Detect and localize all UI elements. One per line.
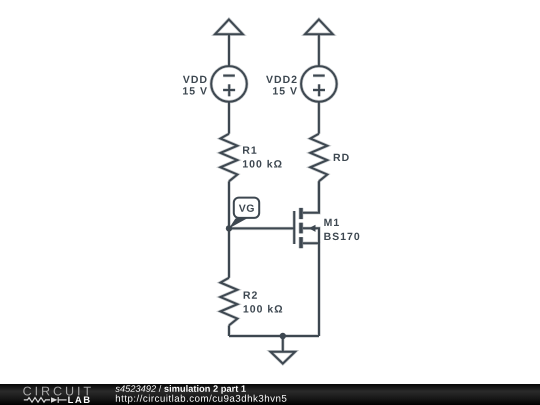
power flag VDD [215, 19, 243, 34]
transistor M1 body lead [303, 228, 319, 243]
node flag VG text [239, 204, 254, 211]
transistor M1 source lead [303, 243, 319, 336]
logo CIRCUIT wordmark [23, 387, 91, 396]
wire VDD flag to source [228, 34, 230, 66]
logo circuit glyph: wire-resistor-diode [24, 397, 67, 403]
logo LAB wordmark [68, 396, 89, 403]
ground [271, 336, 296, 364]
node flag VG pointer [229, 219, 247, 229]
transistor M1 channel dashes [299, 208, 303, 248]
wire gate [229, 227, 294, 229]
node VG junction dot [226, 225, 232, 231]
wire RD to drain [318, 181, 320, 212]
node flag VG box [234, 198, 259, 218]
footer url text [116, 395, 287, 404]
wire source to R1 [228, 102, 230, 134]
voltage source VDD2 15V [301, 66, 337, 102]
label VDD value 15 V [183, 87, 207, 94]
footer title s4523492 / simulation 2 part 1 [115, 385, 246, 394]
label R2 [244, 291, 257, 298]
resistor RD [310, 134, 327, 182]
junction dot bottom rail [280, 333, 286, 339]
footer bar [0, 384, 540, 405]
wire source VDD2 to RD [318, 102, 320, 134]
label VDD [183, 76, 207, 83]
label M1 type BS170 [324, 233, 359, 240]
logo diode triangle [51, 397, 57, 403]
label R2 value 100 kΩ [244, 305, 283, 313]
wire R1 to node VG [228, 181, 230, 228]
resistor R1 [220, 134, 237, 182]
soft halo pass of all wires and symbols [211, 19, 337, 363]
label R1 [243, 146, 256, 153]
transistor M1 body arrow [309, 225, 316, 232]
label VDD2 [266, 76, 297, 83]
voltage source VDD 15V [211, 66, 247, 102]
wire node VG to R2 [228, 228, 230, 277]
transistor M1 gate bar [293, 211, 295, 244]
label VDD2 value 15 V [273, 87, 297, 94]
label RD [334, 154, 349, 161]
label M1 [324, 219, 339, 226]
resistor R2 [220, 278, 237, 326]
label R1 value 100 kΩ [243, 160, 282, 168]
wire R2 to bottom rail [228, 325, 230, 336]
wire VDD2 flag to source [318, 34, 320, 66]
power flag VDD2 [305, 19, 333, 34]
transistor M1 drain lead [303, 181, 319, 212]
wire bottom rail [229, 335, 319, 337]
crisp pass of all wires and symbols [211, 19, 337, 363]
